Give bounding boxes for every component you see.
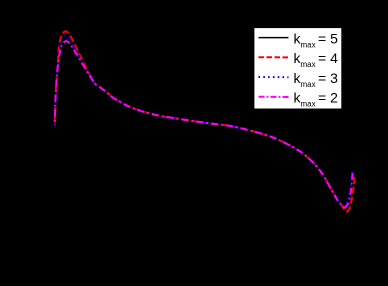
curve k_max=2 (magenta dash-dot) (55, 41, 345, 208)
legend line k_max=5 (black solid) (259, 37, 289, 39)
curve k_max=3 (blue dotted) (55, 36, 352, 206)
legend line k_max=3 (blue dotted) (259, 76, 289, 78)
legend line k_max=2 (magenta dash-dot) (259, 96, 289, 98)
curve k_max=5 (black solid, hidden on black background) (55, 31, 355, 211)
curve k_max=4 (red dashed) (55, 31, 355, 211)
legend line k_max=4 (red dashed) (259, 56, 289, 58)
legend box (254, 28, 342, 109)
curve k_max=2 right branch (magenta dash-dot) (345, 171, 353, 209)
